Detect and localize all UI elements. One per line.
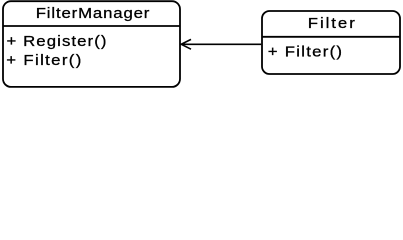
svg-text:FilterManager: FilterManager — [36, 6, 150, 22]
svg-text:+ Filter(): + Filter() — [6, 53, 81, 69]
arrowhead open — [181, 39, 191, 49]
svg-text:Filter: Filter — [308, 16, 356, 32]
separator FilterManager — [3, 25, 180, 27]
class box Filter — [262, 11, 400, 74]
wire arrow shaft — [182, 43, 262, 45]
svg-text:+ Register(): + Register() — [6, 34, 106, 50]
svg-text:+ Filter(): + Filter() — [268, 44, 342, 60]
separator Filter — [262, 36, 400, 38]
class box FilterManager — [3, 1, 180, 87]
